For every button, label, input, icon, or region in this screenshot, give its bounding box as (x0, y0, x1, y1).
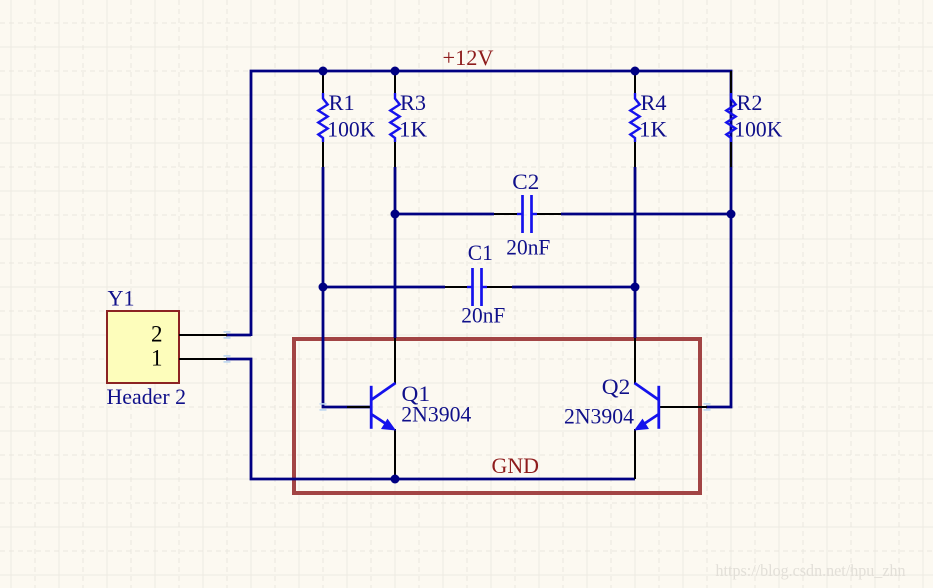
svg-text:2N3904: 2N3904 (564, 404, 634, 429)
junction node on +12V rail at R1 (319, 67, 328, 76)
wire C2 row right segment (561, 213, 731, 216)
header Y1 body (107, 286, 187, 410)
svg-text:2: 2 (151, 322, 163, 347)
svg-text:R3: R3 (400, 90, 426, 115)
wire R3 column down to Q1 collector pin (394, 167, 397, 338)
GND enclosure rectangle (294, 339, 700, 493)
svg-text:C2: C2 (512, 169, 539, 194)
resistor R4 (630, 71, 667, 167)
snap marker at Q1 base wire corner (320, 404, 327, 410)
junction node on +12V rail at R4 (631, 67, 640, 76)
junction node C2 row right (727, 210, 736, 219)
svg-text:R2: R2 (737, 90, 763, 115)
wire R4 column down to Q2 collector pin (634, 167, 637, 338)
svg-text:Q2: Q2 (602, 374, 631, 399)
svg-text:GND: GND (492, 453, 540, 478)
junction node C1 row right (631, 283, 640, 292)
pin 2 of Y1 (151, 322, 227, 347)
junction node ground rail at Q1 emitter (391, 475, 400, 484)
resistor R3 (390, 71, 427, 167)
transistor Q1 (2N3904) (347, 338, 471, 479)
svg-text:+12V: +12V (443, 45, 494, 70)
transistor Q2 (2N3904) (564, 338, 707, 479)
wire R1 column down to Q1 base (323, 167, 371, 407)
svg-text:C1: C1 (468, 240, 493, 265)
svg-text:R4: R4 (641, 90, 667, 115)
snap marker at Q2 base wire end (704, 404, 711, 410)
junction node C1 row left (319, 283, 328, 292)
resistor R1 (318, 71, 375, 167)
svg-text:20nF: 20nF (506, 235, 550, 260)
pin 1 of Y1 (151, 346, 227, 371)
svg-text:https://blog.csdn.net/hpu_zhn: https://blog.csdn.net/hpu_zhn (716, 561, 906, 580)
resistor R2 (726, 71, 782, 167)
wire pin1 to ground rail (226, 359, 635, 479)
wire pin2 stub (226, 334, 251, 337)
svg-text:1K: 1K (399, 117, 427, 142)
junction node C2 row left (391, 210, 400, 219)
snap marker at Y1 pin 1 wire end (224, 356, 231, 362)
wire C1 row right segment (512, 286, 635, 289)
svg-text:1K: 1K (639, 117, 667, 142)
wire C2 row left segment (395, 213, 494, 216)
svg-text:Header 2: Header 2 (107, 384, 187, 409)
snap marker at Y1 pin 2 wire end (224, 332, 231, 338)
capacitor C1 (445, 240, 512, 328)
svg-text:20nF: 20nF (461, 303, 505, 328)
svg-text:100K: 100K (327, 117, 375, 142)
junction node on +12V rail at R3 (391, 67, 400, 76)
svg-text:2N3904: 2N3904 (401, 402, 471, 427)
wire C1 row left segment (323, 286, 445, 289)
svg-text:Y1: Y1 (108, 286, 135, 311)
capacitor C2 (494, 169, 561, 260)
svg-text:R1: R1 (329, 90, 355, 115)
svg-text:100K: 100K (734, 117, 782, 142)
wire +12V top rail with left drop (251, 71, 731, 336)
wire R2 column down to Q2 base (706, 167, 731, 407)
svg-text:1: 1 (151, 346, 163, 371)
